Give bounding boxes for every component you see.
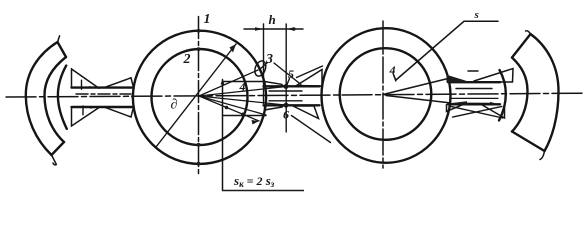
weld zone box bottom line	[223, 115, 267, 117]
left bar weld flash bottom-right wedge	[104, 107, 134, 117]
left ring inner circle	[152, 49, 248, 145]
left partial link outer arc	[26, 42, 58, 155]
h dimension line	[244, 28, 303, 30]
diameter d line at 50 deg with arrowhead	[156, 44, 236, 147]
svg-text:2: 2	[183, 52, 191, 67]
middle bar bottom edge	[264, 104, 320, 106]
fan line from center to bottom weld dot	[199, 96, 285, 105]
left partial link bottom spur	[52, 155, 57, 165]
left bar cap tick bottom	[82, 106, 84, 115]
right bar internal arrow left	[450, 101, 468, 105]
h right extension line	[285, 24, 287, 132]
left ring vertical centerline	[198, 17, 200, 177]
right bar weld flash top-right wedge	[474, 69, 513, 83]
right bar inner line 3	[451, 97, 498, 99]
middle bar inner line upper	[269, 90, 302, 92]
h left extension line	[263, 24, 265, 104]
right partial link bottom spur	[540, 151, 545, 160]
middle bar weld flash bottom-left wedge	[265, 105, 284, 110]
h right arrow	[286, 27, 294, 31]
svg-text:5: 5	[288, 67, 294, 81]
right ring inner circle	[340, 48, 432, 140]
fan line from center to lower wedge	[199, 96, 266, 115]
left partial link top spur	[58, 36, 60, 43]
svg-text:s: s	[474, 9, 479, 21]
fan line from center to top weld dot	[199, 87, 285, 96]
svg-text:1: 1	[204, 12, 211, 27]
dots on radius line	[225, 106, 245, 116]
small dash above right bar	[468, 70, 478, 72]
radius arrow down-right	[199, 96, 259, 121]
left bar end-cap arc	[58, 66, 67, 129]
svg-text:4: 4	[389, 63, 396, 77]
right bar lower cross diagonal 1	[451, 106, 503, 118]
left edge-on link bar bottom edge	[72, 106, 134, 108]
right partial link outer arc	[531, 34, 559, 151]
middle bar weld flash bottom-right wedge	[293, 106, 319, 119]
right bar weld flash bottom-right wedge	[482, 105, 505, 118]
weld flash ellipse on ring (label 3)	[253, 59, 268, 77]
angle line from right center to top corner	[383, 79, 448, 95]
right bar lower cross diagonal 2	[453, 106, 502, 117]
left bar weld flash bottom-left wedge	[72, 107, 101, 126]
svg-text:∂: ∂	[171, 98, 178, 113]
right bar bottom edge	[448, 103, 500, 105]
formula leader vertical line	[222, 80, 224, 191]
right bar inner line 1	[456, 88, 492, 90]
right bar weld flash bottom-left wedge	[447, 105, 463, 112]
right bar internal arrow line	[467, 102, 490, 104]
leader from 6 down right	[292, 116, 331, 143]
weld zone box top line	[223, 81, 264, 83]
angle line from right center to bottom corner	[386, 96, 449, 103]
fan line from center to weld flash ellipse	[199, 70, 258, 96]
right bar end-cap arc	[499, 70, 506, 121]
right partial link top break line	[512, 34, 531, 58]
middle bar weld flash top-left wedge	[265, 82, 284, 87]
svg-text:3: 3	[265, 52, 273, 67]
weld junction dots on middle bar	[284, 84, 289, 108]
middle bar weld flash top-right wedge	[297, 70, 323, 87]
formula underline	[223, 190, 305, 192]
leader from 5 to top dot	[286, 79, 289, 87]
phi glyph tail	[394, 75, 396, 81]
leader from 3 to right wedge	[274, 63, 301, 85]
h left arrow	[255, 27, 264, 31]
left bar cap tick top	[81, 80, 83, 89]
left partial link top break line	[58, 42, 67, 57]
right partial link top spur	[526, 31, 531, 34]
middle edge-on link bar top edge	[264, 85, 320, 87]
left ring outer circle	[133, 31, 266, 164]
svg-text:h: h	[269, 12, 276, 27]
right bar internal arrow right	[490, 102, 498, 106]
left bar weld flash top-right wedge	[104, 78, 134, 88]
leader from 5 up right	[297, 66, 323, 78]
left edge-on link bar top edge	[72, 86, 134, 88]
left bar inner weld line	[76, 93, 131, 95]
middle bar inner line lower	[269, 100, 302, 102]
right ring outer circle	[322, 28, 451, 163]
left partial link inner arc	[45, 57, 67, 142]
left bar weld flash top-left wedge	[72, 69, 100, 88]
left partial link bottom break line	[52, 142, 65, 155]
svg-text:4: 4	[239, 80, 246, 94]
right ring vertical centerline	[382, 21, 384, 168]
svg-text:6: 6	[283, 108, 289, 122]
right bar weld flash top-left wedge	[447, 75, 471, 82]
leader from 3 to ellipse	[260, 63, 268, 70]
right partial link inner arc	[512, 58, 528, 132]
left ring centerline tick dots	[131, 29, 200, 166]
right edge-on link bar top edge	[448, 81, 500, 83]
s label leader	[397, 21, 499, 79]
right partial link bottom break line	[512, 132, 545, 152]
main horizontal centerline	[6, 93, 583, 97]
